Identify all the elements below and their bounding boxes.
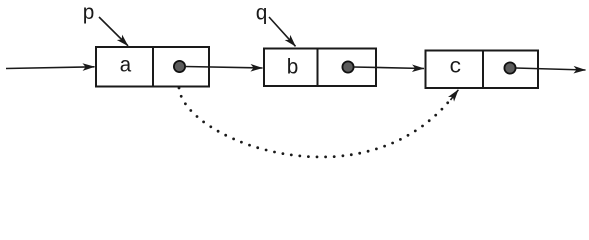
- svg-text:b: b: [286, 58, 299, 81]
- svg-text:p: p: [82, 3, 95, 26]
- svg-text:q: q: [255, 4, 268, 27]
- svg-text:c: c: [449, 57, 462, 80]
- svg-text:a: a: [119, 56, 132, 79]
